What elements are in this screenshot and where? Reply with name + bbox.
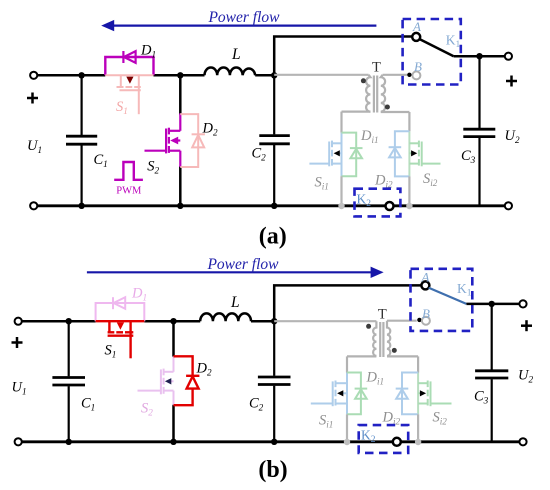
mosfet Si2 arrow (a) [411,150,417,156]
node B stub dot (a) [407,73,411,77]
node junction C2 bottom (b) [271,439,277,445]
capacitor C2 (b) [258,321,291,442]
transformer polarity dot secondary (b) [392,348,397,353]
diode Di1 loop (b) [347,373,361,415]
svg-text:B: B [414,59,422,74]
transformer T primary lead (a) [274,74,368,76]
mosfet S2 (b) [138,356,174,405]
wire riser to A (b) [274,285,421,321]
power flow arrow (b) [87,267,384,278]
mosfet Si1 (b) [311,381,347,407]
mosfet Si1 main line (a) [341,133,343,177]
node Si2 rail (a) [406,203,412,209]
wire top left (b) [22,320,96,323]
diode D2 loop (a) [180,114,198,167]
svg-text:A: A [412,19,421,34]
wire top left (a) [38,74,106,77]
node junction C1 top (b) [66,318,72,324]
transformer polarity dot primary (b) [366,324,371,329]
wire bottom rail (b) [22,440,393,443]
mosfet Si2 (a) [409,141,440,167]
node output junction (a) [476,53,482,59]
svg-text:B: B [422,306,430,321]
capacitor C1 (a) [66,75,97,206]
mosfet S2 arrow (b) [165,378,171,384]
mosfet S1 (b) [96,321,145,358]
diode Di1 loop (a) [342,133,357,177]
node junction S2 bottom (b) [170,439,176,445]
node junction S2 top (a) [177,72,183,78]
svg-text:L: L [231,46,241,63]
diode Di1 symbol (b) [355,389,368,399]
terminal input bottom (a) [30,202,37,209]
svg-text:Power flow: Power flow [206,256,279,273]
wire top mid (b) [144,320,200,323]
svg-text:(b): (b) [258,457,287,483]
terminal K2 (b) [393,438,401,446]
diode Di2 loop (b) [402,373,418,415]
wire S2 branch lower (a) [179,166,182,206]
wire riser to A (a) [274,37,412,76]
inductor L (a) [205,68,256,76]
transformer polarity dot secondary (a) [385,105,390,110]
transformer T (a) [342,75,410,133]
node Si1 rail (b) [344,439,350,445]
node junction C1 bottom (b) [66,439,72,445]
mosfet S2 (a) [145,113,181,167]
capacitor C2 (a) [259,75,290,206]
node B (b) [422,317,430,325]
power flow arrow (a) [101,20,376,31]
capacitor C3 (a) [463,56,495,206]
diode Di2 symbol (a) [389,147,402,157]
wire top mid (a) [154,74,205,77]
wire S2 branch upper (b) [172,321,175,357]
PWM pulse symbol (a) [114,162,143,180]
diode D2 symbol (b) [186,376,199,389]
wire bottom rail right segment (a) [394,204,505,207]
mosfet S1 arrow (b) [117,323,124,330]
svg-text:T: T [372,60,381,76]
node A (b) [421,281,429,289]
mosfet S2 arrow (a) [170,137,178,145]
node junction C2 bottom (a) [271,203,277,209]
switch K1 box (b) [411,269,473,331]
mosfet Si2 main line (b) [417,373,419,415]
mosfet Si1 arrow (b) [337,390,343,396]
node junction C1 bottom (a) [78,203,84,209]
capacitor C1 (b) [52,321,85,442]
plus sign output (a) [506,76,517,87]
mosfet Si2 (b) [418,381,451,407]
capacitor C3 (b) [475,304,508,442]
diode D1 loop (b) [96,303,145,321]
plus sign input (a) [27,93,38,104]
wire bottom rail right segment (b) [401,440,519,443]
svg-text:L: L [230,294,240,311]
svg-text:A: A [421,270,430,285]
wire top right of L (a) [255,74,275,77]
svg-text:(a): (a) [259,224,287,250]
wire S2 branch lower (b) [172,405,175,442]
node junction S2 bottom (a) [177,203,183,209]
mosfet Si2 arrow (b) [420,390,426,396]
node junction L-C2 (a) [271,72,277,78]
terminal output top (b) [519,300,526,307]
node A (a) [412,33,420,41]
wire top right of L (b) [251,320,274,323]
diode Di2 symbol (b) [396,389,409,399]
mosfet S1 arrow (a) [126,77,133,84]
diode D1 symbol (a) [123,51,135,63]
node junction S2 top (b) [170,318,176,324]
wire Si2 source to rail (b) [417,414,419,442]
wire Si1 source to rail (a) [340,176,342,206]
svg-text:T: T [378,307,387,323]
svg-text:Power flow: Power flow [207,9,280,26]
node junction C1 top (a) [78,72,84,78]
transformer T (b) [347,321,418,373]
terminal output bottom (b) [519,438,526,445]
switch K1 box (a) [403,19,461,85]
terminal output bottom (a) [505,202,512,209]
terminal input bottom (b) [15,438,22,445]
switch K1 blade (a) [420,39,454,56]
terminal output top (a) [505,53,512,60]
switch K2 box (a) [355,189,401,217]
node output junction (b) [489,301,495,307]
svg-text:PWM: PWM [116,186,142,197]
mosfet Si1 (a) [309,141,341,167]
diode D2 loop (b) [174,356,193,405]
mosfet S1 (a) [105,75,153,114]
mosfet Si1 arrow (a) [334,150,340,156]
inductor L (b) [200,313,251,321]
switch K2 box (b) [359,425,409,453]
wire S2 branch upper (a) [179,75,182,114]
switch K1 blade (b) [429,288,467,304]
terminal K2 (a) [386,202,394,210]
transformer T primary lead (b) [274,320,376,322]
transformer polarity dot primary (a) [361,78,366,83]
mosfet Si1 main line (b) [346,373,348,415]
diode Di2 loop (a) [395,131,410,176]
wire bottom rail (a) [38,204,386,207]
terminal input top (a) [30,72,37,79]
wire Si1 source to rail (b) [346,414,348,442]
node Si2 rail (b) [415,439,421,445]
wire Si2 source to rail (a) [408,176,410,205]
terminal input top (b) [15,318,22,325]
diode D2 symbol (a) [192,134,205,147]
diode D1 loop (a) [105,57,153,75]
plus sign output (b) [521,320,532,331]
node B (a) [412,71,420,79]
mosfet Si2 main line (a) [408,131,410,176]
wire blade to output (b) [466,303,519,306]
diode D1 symbol (b) [113,297,125,309]
node Si1 rail (a) [338,203,344,209]
node B stub dot (b) [417,318,421,322]
wire blade to output (a) [454,55,505,58]
node junction L-C2 (b) [271,318,277,324]
plus sign input (b) [12,337,23,348]
diode Di1 symbol (a) [350,148,363,158]
